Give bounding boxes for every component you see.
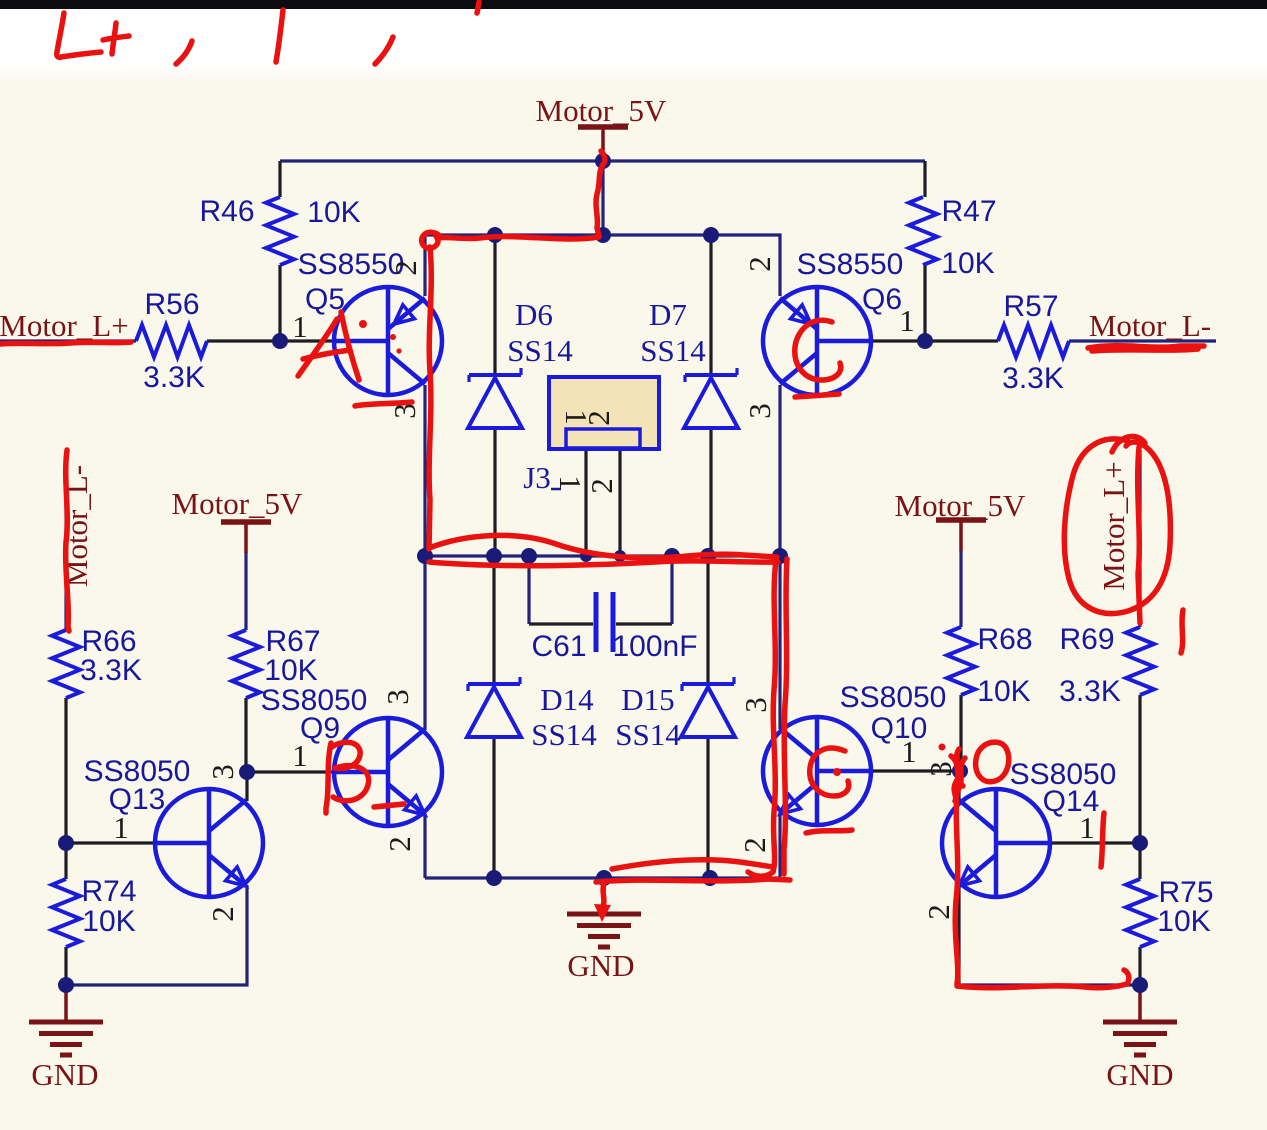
svg-text:Motor_L-: Motor_L- (1089, 308, 1211, 343)
wire right rail mid bus to Q10 collector (778, 556, 781, 729)
wire left rail mid bus to Q9 collector (423, 556, 426, 730)
resistor R56 (136, 325, 207, 357)
capacitor C61 (594, 592, 599, 652)
red annotation: handwriting L+ in top band (57, 13, 129, 57)
svg-text:3.3K: 3.3K (143, 361, 205, 394)
svg-text:R47: R47 (941, 195, 996, 228)
svg-text:10K: 10K (264, 654, 317, 687)
wire R75 top lead from node (1138, 843, 1141, 879)
svg-text:R46: R46 (199, 195, 254, 228)
wire Q10 base (871, 769, 960, 772)
svg-text:D7: D7 (649, 297, 687, 332)
connector J3 (549, 377, 659, 449)
svg-text:R74: R74 (81, 875, 136, 908)
resistor R75 (1126, 879, 1154, 947)
svg-text:D6: D6 (515, 297, 553, 332)
wire Q14 emitter down and right to gnd node (957, 885, 960, 985)
transistor Q9 (334, 718, 442, 826)
node R67/Q13 collector/Q9 base (239, 764, 255, 780)
wire Q9 emitter to bottom bus (423, 814, 426, 878)
svg-text:2: 2 (388, 260, 423, 276)
svg-text:3.3K: 3.3K (1002, 362, 1064, 395)
wire Motor_L+ right vertical net (1138, 447, 1141, 627)
wire R75 bottom lead (1138, 947, 1141, 985)
node C61 left on mid bus (521, 548, 537, 564)
ground symbol center (602, 878, 606, 913)
resistor R46 (266, 197, 294, 265)
red annotation: letter B over Q9 (326, 742, 369, 813)
svg-text:SS14: SS14 (507, 333, 573, 368)
red annotation: big trace from Motor_5V down-left and around H-bridge left (422, 151, 790, 913)
wire bottom bus (425, 876, 780, 879)
svg-text:1: 1 (901, 734, 917, 769)
svg-text:SS8550: SS8550 (797, 248, 904, 281)
wire R66 bottom lead (64, 698, 67, 843)
wire Q5 collector down to mid bus (423, 385, 426, 556)
wire Motor_5V left stem to R67 (244, 552, 247, 630)
diode D15 (681, 677, 735, 737)
node D7/D15 on mid bus (700, 548, 716, 564)
wire D6 top lead (493, 235, 496, 373)
svg-text:1: 1 (1079, 810, 1095, 845)
red annotation: vertical stroke over right Motor_L+ label (1138, 447, 1140, 623)
resistor R57 (998, 325, 1069, 357)
node R69/R75/Q14 base (1132, 835, 1148, 851)
svg-text:R56: R56 (144, 288, 199, 321)
wire R46 bottom lead to Q5 base node (278, 265, 281, 341)
svg-text:R57: R57 (1003, 290, 1058, 323)
node R68/Q10 base/Q14 collector (952, 763, 968, 779)
wire R47 bottom lead to Q6 base node (923, 265, 926, 341)
ground symbol left (64, 985, 68, 1021)
wire C61 right horizontal (616, 622, 672, 625)
node J3 pin1 on mid bus (580, 550, 592, 562)
svg-text:1: 1 (113, 810, 129, 845)
transistor Q10 (763, 717, 871, 825)
black top bar (0, 0, 1267, 9)
wire R74 bottom lead to gnd node (64, 947, 67, 985)
svg-text:SS14: SS14 (640, 333, 706, 368)
svg-text:SS8050: SS8050 (840, 681, 947, 714)
red annotation: apostrophe on black bar (477, 2, 479, 13)
wire R47 top lead from rail (923, 161, 926, 197)
wire D14 top lead (492, 556, 495, 682)
resistor R74 (52, 879, 80, 947)
diode D7 (684, 368, 738, 428)
wire C61 left branch (527, 556, 530, 624)
power symbol Motor_5V right (936, 520, 986, 551)
svg-text:2: 2 (921, 904, 956, 920)
wire J3 pin1 (584, 449, 587, 556)
wire Q14 base (1051, 841, 1140, 844)
red annotation: line over Motor_L+ wire (0, 342, 131, 344)
svg-text:Motor_5V: Motor_5V (172, 486, 304, 521)
node R47/R57/Q6 base (917, 333, 933, 349)
svg-text:10K: 10K (1157, 905, 1210, 938)
wire R67 bottom lead to node (244, 698, 247, 772)
transistor Q6 (763, 287, 871, 395)
svg-text:100nF: 100nF (612, 630, 697, 663)
node D14 on bottom bus (486, 870, 502, 886)
resistor R66 (52, 630, 80, 698)
red annotation: circle around right Motor_L+ (1064, 439, 1170, 614)
wire C61 left horizontal (529, 622, 593, 625)
svg-text:J3: J3 (523, 460, 551, 495)
svg-text:2: 2 (737, 837, 772, 853)
wire Motor_L+ net to R56 (0, 339, 136, 342)
svg-text:2: 2 (581, 410, 616, 426)
svg-text:10K: 10K (977, 675, 1030, 708)
svg-text:C61: C61 (531, 630, 586, 663)
node GND on bottom bus (596, 870, 612, 886)
resistor R47 (909, 197, 937, 265)
resistor R67 (232, 630, 260, 698)
svg-text:3: 3 (923, 761, 958, 777)
red annotation: vertical stroke over left Motor_L- label (66, 450, 69, 631)
red annotation: arrowhead at GND center (594, 904, 611, 922)
wire Q14 collector stub (959, 771, 961, 801)
svg-text:Motor_5V: Motor_5V (536, 93, 668, 128)
node R66/R74/Q13 base (58, 835, 74, 851)
red annotation: tick right of R69 (1181, 610, 1183, 653)
wire R69 bottom lead (1138, 695, 1141, 843)
svg-text:GND: GND (1106, 1057, 1173, 1092)
red annotation: letter A over Q5 (298, 312, 359, 380)
power symbol Motor_5V top (578, 127, 628, 158)
red annotation: dash right of B (374, 804, 404, 807)
red annotation: long line from node down then right to GND right (955, 783, 1129, 988)
diode D14 (467, 677, 521, 737)
wire Q9 base (247, 770, 334, 773)
wire D6 bottom lead (493, 429, 496, 556)
wire Motor_5V right stem to R68 (959, 550, 962, 627)
red annotation: dots near Q5 (359, 320, 367, 328)
wire D15 top lead (706, 556, 709, 682)
white top band (0, 8, 1267, 66)
wire top Motor_5V rail (280, 159, 925, 162)
red annotation: scribble circle over Q10 (810, 748, 849, 796)
svg-text:1: 1 (292, 738, 308, 773)
wire Q5 base (280, 339, 334, 342)
resistor R69 (1126, 627, 1154, 695)
wire Q6 base (873, 339, 925, 342)
svg-text:1: 1 (899, 303, 915, 338)
svg-text:10K: 10K (941, 247, 994, 280)
wire R74 top lead from node (64, 843, 67, 879)
red annotation: second comma in top band (375, 37, 393, 64)
wire Q13 collector stub (245, 772, 248, 801)
node D7 top on rail2 (703, 227, 719, 243)
wire mid bus (425, 554, 780, 557)
wire J3 pin2 (618, 449, 621, 556)
svg-text:3: 3 (738, 697, 773, 713)
svg-text:2: 2 (584, 478, 619, 494)
ground symbol right (1138, 985, 1142, 1021)
svg-text:Motor_L+: Motor_L+ (1096, 461, 1131, 590)
wire rail2 (emitters of Q5/Q6, D6, D7 tops) (425, 235, 780, 296)
svg-text:SS14: SS14 (615, 717, 681, 752)
svg-text:R69: R69 (1059, 623, 1114, 656)
resistor R68 (947, 627, 975, 695)
node D15 on bottom bus (702, 870, 718, 886)
node D6 top on rail2 (487, 227, 503, 243)
transistor Q5 (334, 287, 442, 395)
svg-text:R68: R68 (977, 623, 1032, 656)
red annotation: letter O (976, 742, 1009, 782)
svg-text:3.3K: 3.3K (1059, 675, 1121, 708)
wire D15 bottom lead (706, 738, 709, 878)
svg-text:3: 3 (742, 403, 777, 419)
svg-text:Motor_L+: Motor_L+ (0, 308, 129, 343)
node 5V link on rail2 (595, 227, 611, 243)
svg-text:3: 3 (205, 764, 240, 780)
svg-text:Motor_5V: Motor_5V (895, 488, 1027, 523)
wire R56 to Q5 base node (207, 339, 280, 342)
red annotation: scribble blob on Q10 base node (951, 749, 965, 801)
wire Q6 collector down to mid bus (778, 385, 781, 556)
node Motor_5V on top rail (595, 153, 611, 169)
svg-text:10K: 10K (82, 905, 135, 938)
svg-text:1: 1 (292, 309, 308, 344)
svg-text:1: 1 (553, 475, 588, 491)
red annotation: line under Q5 (355, 402, 412, 406)
wire Q13 emitter down and left to gnd node (66, 885, 247, 985)
node mid bus right corner (772, 548, 788, 564)
svg-text:3: 3 (380, 689, 415, 705)
node J3 pin2 on mid bus (614, 550, 626, 562)
wire C61 right branch (670, 556, 673, 624)
node C61 right on mid bus (664, 548, 680, 564)
svg-text:2: 2 (742, 256, 777, 272)
svg-text:10K: 10K (307, 196, 360, 229)
wire Q6 base node to R57 (925, 339, 998, 342)
wire R46 top lead from rail (278, 161, 281, 197)
red annotation: line under Q6 (795, 394, 839, 397)
node D6/D14 on mid bus (486, 548, 502, 564)
node R46/R56/Q5 base (272, 333, 288, 349)
wire Motor_5V stem link to rail2 (601, 161, 604, 235)
diode D6 (468, 368, 522, 428)
svg-text:GND: GND (567, 948, 634, 983)
red annotation: first comma in top band (176, 41, 192, 64)
node mid bus left corner (417, 548, 433, 564)
svg-text:2: 2 (205, 906, 240, 922)
red annotation: underline of Motor_L- (1088, 346, 1204, 351)
wire D14 bottom lead (492, 738, 495, 878)
red annotation: letter C over Q6 (795, 320, 841, 380)
svg-text:D14: D14 (540, 682, 594, 717)
svg-text:3.3K: 3.3K (80, 654, 142, 687)
red annotation: line under Q10 (806, 830, 852, 833)
transistor Q13 (155, 789, 263, 897)
power symbol Motor_5V left (221, 522, 271, 553)
transistor Q14 (942, 789, 1050, 897)
wire Q10 emitter to bottom bus (778, 814, 781, 878)
wire D7 top lead (709, 235, 712, 373)
svg-text:2: 2 (382, 836, 417, 852)
wire Motor_L- left vertical net (64, 453, 67, 630)
svg-text:Q10: Q10 (871, 712, 928, 745)
svg-text:D15: D15 (621, 682, 674, 717)
red annotation: tick near Q14 pin 1 (1101, 813, 1104, 867)
wire Q13 base (66, 841, 157, 844)
node R75/GND right (1132, 977, 1148, 993)
red annotation: stroke 1 in top band (276, 10, 283, 62)
svg-text:SS14: SS14 (531, 717, 597, 752)
wire R57 to Motor_L- net (1069, 339, 1216, 342)
wire D7 bottom lead (709, 429, 712, 556)
node R74/GND left (58, 977, 74, 993)
svg-text:GND: GND (31, 1057, 98, 1092)
wire R68 bottom lead to node (959, 695, 962, 771)
svg-text:Q6: Q6 (862, 283, 902, 316)
